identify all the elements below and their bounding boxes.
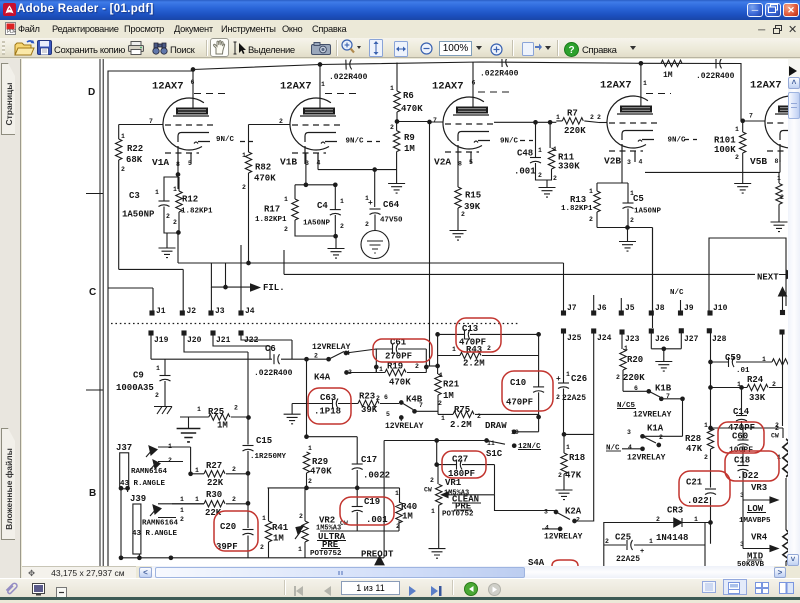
- resistor R40: [396, 488, 402, 531]
- svg-text:470K: 470K: [401, 104, 423, 114]
- label C27: [448, 455, 475, 480]
- wire J6 stub: [593, 295, 595, 311]
- svg-text:1: 1: [121, 133, 125, 140]
- svg-text:470K: 470K: [389, 378, 411, 388]
- svg-text:R30: R30: [206, 490, 222, 500]
- svg-text:C14: C14: [733, 407, 750, 417]
- red oval S4A partial: [552, 560, 578, 566]
- tube V2A 12AX7: [443, 97, 533, 163]
- svg-text:1M: 1M: [404, 144, 415, 154]
- resistor R30: [172, 501, 248, 507]
- resistor R75: [438, 411, 539, 417]
- svg-text:C15: C15: [256, 436, 272, 446]
- node R27 join: [246, 472, 250, 476]
- fit page icon: [369, 39, 383, 62]
- label R11: [553, 146, 580, 182]
- svg-text:N/C: N/C: [670, 289, 684, 297]
- node R17/C4 junction: [334, 234, 338, 238]
- svg-text:22A25: 22A25: [562, 394, 586, 403]
- svg-text:4: 4: [545, 525, 549, 532]
- svg-text:1000A35: 1000A35: [116, 383, 154, 393]
- svg-text:C25: C25: [615, 533, 631, 543]
- svg-text:J19: J19: [154, 336, 169, 345]
- potentiometer VR1: [436, 465, 495, 549]
- svg-text:1.82KP1: 1.82KP1: [561, 205, 593, 213]
- pad J5: [619, 311, 623, 315]
- svg-text:J37: J37: [116, 443, 132, 453]
- svg-text:?: ?: [568, 45, 574, 56]
- node bottom bus 1: [119, 556, 123, 560]
- underline MID: [747, 559, 762, 561]
- svg-text:2: 2: [576, 517, 580, 524]
- node R29 top: [305, 435, 309, 439]
- svg-text:2.2M: 2.2M: [450, 420, 472, 430]
- wire C27 row: [437, 441, 495, 495]
- svg-text:1M: 1M: [443, 391, 454, 401]
- switch K1B: [647, 390, 684, 437]
- pad J26: [649, 329, 653, 333]
- wire bottom bus left: [121, 557, 384, 559]
- inner border with top bus: [108, 71, 193, 566]
- pad J23: [620, 330, 624, 334]
- svg-text:J23: J23: [625, 335, 640, 344]
- label C63: [314, 393, 341, 417]
- capacitor C27 inline: [457, 460, 463, 470]
- svg-text:J20: J20: [187, 336, 202, 345]
- wire V2B cathode down: [621, 162, 623, 181]
- svg-text:.1R250MY: .1R250MY: [250, 453, 287, 461]
- svg-text:C48: C48: [517, 149, 533, 159]
- svg-text:C64: C64: [383, 200, 400, 210]
- print icon: [128, 41, 144, 60]
- resistor R82: [245, 125, 251, 264]
- svg-text:2: 2: [704, 454, 708, 461]
- svg-text:R23: R23: [359, 392, 375, 402]
- label R22: [121, 133, 143, 173]
- svg-text:43 R.ANGLE: 43 R.ANGLE: [132, 530, 178, 538]
- node C10 bottom: [537, 415, 541, 419]
- resistor R23: [351, 400, 399, 406]
- red oval C20: [214, 511, 258, 551]
- svg-text:9N/C: 9N/C: [346, 138, 365, 146]
- wire V2A grid to R7: [494, 121, 556, 123]
- svg-text:1: 1: [195, 496, 199, 503]
- labels J row 1 left: [156, 307, 255, 316]
- svg-text:C6: C6: [265, 344, 276, 354]
- connector J37: [120, 446, 191, 489]
- node FIL junction: [224, 285, 228, 289]
- paperclip: [3, 580, 21, 603]
- label R23: [359, 392, 388, 416]
- ground C3/R12: [159, 233, 176, 258]
- svg-text:2: 2: [772, 381, 776, 388]
- svg-text:22K: 22K: [207, 478, 224, 488]
- label tube V1A: [149, 79, 235, 168]
- red oval C27: [442, 451, 486, 478]
- label VR2: [298, 513, 348, 558]
- capacitor .022R400 (1) inline top bus: [346, 59, 352, 69]
- label C15: [250, 436, 287, 461]
- wire R18 row: [564, 433, 594, 435]
- node R13/C5: [626, 226, 630, 230]
- sidebar: [0, 59, 21, 578]
- svg-text:C59: C59: [725, 353, 741, 363]
- resistor R15: [455, 187, 461, 230]
- svg-text:1MAVBP5: 1MAVBP5: [739, 517, 771, 525]
- label tube V5B: [750, 80, 784, 202]
- svg-text:J24: J24: [597, 334, 612, 343]
- node V2A grid left: [428, 120, 432, 124]
- label R6: [390, 85, 423, 114]
- svg-text:R29: R29: [312, 457, 328, 467]
- svg-text:V2B: V2B: [604, 156, 621, 167]
- pad J1: [150, 311, 154, 315]
- wire C15 column: [247, 359, 249, 558]
- node J26 ground joint: [662, 347, 666, 351]
- pad J2: [180, 311, 184, 315]
- svg-text:1: 1: [242, 152, 246, 159]
- svg-text:R12: R12: [182, 195, 198, 205]
- resistor R43: [460, 352, 481, 358]
- svg-text:R82: R82: [255, 163, 271, 173]
- label VR3: [739, 483, 771, 525]
- fit width icon: [394, 41, 408, 62]
- label C6: [254, 344, 293, 378]
- capacitor .022R400 (3) inline top bus: [716, 58, 722, 68]
- label C3: [122, 189, 170, 220]
- label VR1: [424, 477, 479, 519]
- svg-text:6: 6: [634, 385, 638, 392]
- svg-text:39K: 39K: [464, 202, 481, 212]
- wire J22 ladder: [241, 335, 292, 359]
- svg-text:J7: J7: [567, 304, 577, 313]
- node R6/R9: [395, 120, 399, 124]
- svg-text:4: 4: [628, 444, 632, 451]
- capacitor C64: [370, 209, 381, 231]
- svg-text:8: 8: [458, 161, 462, 168]
- label K4B: [385, 395, 424, 432]
- wire J8 drop from C5: [652, 228, 654, 312]
- svg-text:J1: J1: [156, 307, 166, 316]
- svg-text:C9: C9: [133, 371, 144, 381]
- svg-text:12VRELAY: 12VRELAY: [385, 422, 424, 431]
- svg-text:.01: .01: [736, 367, 750, 375]
- svg-text:47V50: 47V50: [380, 217, 403, 225]
- wire C13 row: [438, 333, 539, 335]
- label C9: [116, 365, 160, 399]
- node C48 top: [534, 121, 538, 125]
- binoculars: [152, 41, 168, 60]
- label R20: [616, 345, 645, 383]
- ground V5B cathode resistor: [771, 222, 788, 232]
- ground R17/C4: [328, 236, 345, 258]
- svg-text:R17: R17: [264, 205, 280, 215]
- svg-text:CW: CW: [771, 433, 779, 440]
- svg-text:DRAW: DRAW: [485, 421, 507, 431]
- svg-text:.022R400: .022R400: [329, 73, 368, 82]
- wire R43 row: [438, 334, 539, 374]
- svg-text:2: 2: [630, 217, 634, 224]
- svg-text:K1B: K1B: [655, 384, 672, 394]
- wire J3 drop: [210, 287, 212, 311]
- window title bar: [0, 0, 800, 20]
- svg-text:C10: C10: [510, 378, 526, 388]
- red oval C60: [718, 422, 764, 453]
- svg-text:R28: R28: [685, 434, 701, 444]
- svg-text:2: 2: [180, 516, 184, 523]
- svg-text:2: 2: [538, 172, 542, 179]
- red oval C18: [725, 451, 779, 481]
- wire V1B plate to bus: [319, 65, 321, 108]
- svg-text:5: 5: [188, 160, 192, 167]
- red oval C21: [679, 471, 730, 506]
- svg-text:3: 3: [305, 160, 309, 167]
- svg-text:12AX7: 12AX7: [432, 81, 464, 93]
- status bar: [0, 578, 800, 597]
- svg-text:1M: 1M: [273, 534, 284, 544]
- pad J6: [592, 311, 596, 315]
- svg-text:J5: J5: [625, 304, 635, 313]
- svg-text:R27: R27: [206, 461, 222, 471]
- svg-text:V5B: V5B: [750, 156, 767, 167]
- svg-text:J28: J28: [712, 335, 727, 344]
- svg-text:22A25: 22A25: [616, 555, 640, 564]
- resistor R24: [747, 384, 768, 390]
- pad J8: [649, 311, 653, 315]
- svg-text:1: 1: [556, 114, 560, 121]
- label R30: [180, 490, 236, 518]
- svg-text:5: 5: [469, 159, 473, 166]
- resistor R21: [435, 374, 441, 414]
- wire J1 drop: [108, 288, 153, 311]
- pad J3: [209, 311, 213, 315]
- svg-text:C21: C21: [686, 478, 703, 488]
- svg-text:R24: R24: [747, 375, 764, 385]
- svg-text:2: 2: [284, 226, 288, 233]
- svg-text:J6: J6: [597, 304, 607, 313]
- label R28: [685, 434, 708, 461]
- svg-text:2: 2: [232, 466, 236, 473]
- node R11 top: [548, 121, 552, 125]
- chassis ground circle C64: [361, 231, 389, 259]
- wire V2A plate to bus: [472, 62, 474, 107]
- capacitor C13 inline: [465, 329, 471, 339]
- zoom out button: [420, 42, 433, 60]
- svg-text:2: 2: [166, 213, 170, 220]
- svg-text:2: 2: [735, 154, 739, 161]
- connector J39: [133, 504, 204, 558]
- node R21 top: [436, 364, 440, 368]
- capacitor C4: [295, 183, 341, 236]
- svg-text:J27: J27: [684, 335, 699, 344]
- svg-text:4: 4: [346, 350, 350, 357]
- ground R101: [734, 184, 751, 194]
- label R29: [308, 445, 332, 485]
- svg-text:1: 1: [308, 445, 312, 452]
- svg-text:1: 1: [321, 81, 325, 88]
- red oval C61: [373, 339, 432, 362]
- label C4: [303, 198, 344, 230]
- svg-text:10: 10: [511, 429, 519, 436]
- wire C25 row: [604, 544, 705, 546]
- capacitor C3: [159, 175, 180, 234]
- wire J9 stub: [680, 300, 682, 311]
- svg-text:1: 1: [298, 546, 302, 553]
- underline N/C5: [617, 408, 636, 410]
- node bottom bus 2: [138, 556, 142, 560]
- box section right: [709, 238, 786, 311]
- resistor R41: [265, 488, 271, 558]
- node C27 left: [435, 463, 439, 467]
- svg-text:FIL.: FIL.: [263, 283, 285, 293]
- svg-text:2: 2: [168, 457, 172, 464]
- svg-text:POT0752: POT0752: [442, 511, 474, 519]
- svg-text:1: 1: [630, 190, 634, 197]
- capacitor C18: [738, 466, 749, 497]
- svg-text:RAMN6164: RAMN6164: [131, 468, 168, 476]
- svg-text:+: +: [640, 548, 644, 556]
- label C17: [361, 455, 390, 481]
- svg-text:J39: J39: [130, 494, 146, 504]
- layout buttons: [702, 581, 716, 593]
- ground R15: [450, 231, 467, 241]
- svg-text:1M: 1M: [663, 71, 673, 80]
- svg-text:43 R.ANGLE: 43 R.ANGLE: [120, 480, 166, 488]
- label C14: [704, 407, 779, 433]
- svg-text:3: 3: [740, 541, 744, 548]
- svg-text:1: 1: [431, 508, 435, 515]
- svg-text:1: 1: [197, 406, 201, 413]
- svg-text:C18: C18: [734, 456, 750, 466]
- arrow NEXT up from J11: [779, 288, 787, 311]
- node C64 top: [373, 168, 377, 172]
- wire J7 drop from bus A: [563, 263, 565, 311]
- tube V1B 12AX7: [290, 98, 380, 164]
- svg-text:2: 2: [232, 496, 236, 503]
- save icon: [37, 40, 52, 60]
- svg-text:47K: 47K: [565, 471, 582, 481]
- svg-text:12AX7: 12AX7: [280, 81, 312, 93]
- resistor R29: [303, 452, 309, 488]
- label R7: [556, 109, 601, 137]
- svg-text:PREOJT: PREOJT: [361, 550, 394, 560]
- capacitor C14: [736, 386, 747, 428]
- svg-text:2: 2: [656, 516, 660, 523]
- wire left box column: [383, 441, 385, 558]
- red oval C63: [308, 388, 351, 424]
- label C48: [514, 147, 542, 179]
- chassis ground C9: [154, 400, 172, 414]
- label C59: [725, 353, 766, 375]
- pad J10: [708, 311, 712, 315]
- svg-text:K2A: K2A: [565, 507, 582, 517]
- svg-text:2: 2: [430, 477, 434, 484]
- svg-text:1: 1: [390, 85, 394, 92]
- pad J22: [239, 331, 243, 335]
- svg-text:470PF: 470PF: [506, 398, 533, 408]
- svg-text:CR3: CR3: [667, 506, 683, 516]
- capacitor .022R400 (2) inline top bus: [502, 57, 508, 67]
- node K4A feed: [305, 357, 309, 361]
- red oval C13: [456, 318, 501, 352]
- switch K4B: [400, 401, 439, 421]
- svg-text:1: 1: [340, 198, 344, 205]
- tube V2B 12AX7: [607, 96, 697, 162]
- svg-text:1: 1: [538, 147, 542, 154]
- node top bus V2B: [639, 62, 643, 66]
- svg-text:J4: J4: [245, 307, 255, 316]
- svg-text:1: 1: [180, 496, 184, 503]
- svg-text:J22: J22: [244, 336, 259, 345]
- svg-text:C63: C63: [320, 393, 336, 403]
- pad J21: [211, 331, 215, 335]
- svg-text:J9: J9: [684, 304, 694, 313]
- wire J28 long column: [710, 333, 712, 544]
- svg-text:POT0752: POT0752: [310, 550, 342, 558]
- underline N/C K1A: [606, 450, 621, 452]
- svg-text:7: 7: [749, 113, 753, 120]
- svg-text:1: 1: [379, 366, 383, 373]
- menu bar: [0, 20, 800, 38]
- label R12: [173, 186, 213, 226]
- svg-text:C: C: [89, 287, 96, 298]
- wire FIL feed: [211, 263, 250, 287]
- zoom box: [439, 41, 472, 56]
- svg-text:2: 2: [605, 538, 609, 545]
- resistor R101: [740, 132, 746, 183]
- svg-text:8: 8: [775, 158, 779, 165]
- svg-text:270PF: 270PF: [385, 352, 412, 362]
- svg-text:V1B: V1B: [280, 157, 297, 168]
- svg-text:S4A: S4A: [528, 558, 545, 566]
- labels J row 2 right: [567, 334, 727, 344]
- svg-text:R41: R41: [272, 523, 289, 533]
- toolbar: [0, 38, 800, 58]
- resistor R9: [375, 122, 400, 184]
- label S1C: [486, 440, 541, 459]
- svg-text:6: 6: [384, 394, 388, 401]
- svg-text:2: 2: [558, 472, 562, 479]
- arrow PREOUT: [375, 556, 384, 565]
- svg-text:100K: 100K: [714, 145, 736, 155]
- wire R25 row: [180, 416, 249, 418]
- label R101: [714, 113, 753, 162]
- svg-text:C13: C13: [462, 324, 478, 334]
- node C61/R19 right: [425, 365, 429, 369]
- wire J20 ladder: [184, 335, 248, 359]
- node top bus V1B: [318, 63, 322, 67]
- svg-text:.022: .022: [687, 496, 709, 506]
- svg-text:.1P18: .1P18: [314, 407, 341, 417]
- svg-text:1: 1: [704, 422, 708, 429]
- hscroll row: [22, 566, 136, 578]
- svg-text:R7: R7: [567, 109, 578, 119]
- svg-text:1: 1: [168, 443, 172, 450]
- red oval C10: [502, 371, 553, 411]
- svg-text:1: 1: [694, 516, 698, 523]
- resistor on V5B cathode: [776, 183, 782, 221]
- arrow FIL: [250, 283, 261, 292]
- svg-text:12VRELAY: 12VRELAY: [312, 343, 351, 352]
- svg-text:7: 7: [666, 393, 670, 400]
- wire V1A plate to bus: [192, 70, 194, 108]
- wire right column pots: [783, 334, 787, 566]
- wire R29 to C17 top: [307, 436, 358, 438]
- svg-text:1M: 1M: [402, 512, 413, 522]
- svg-text:1: 1: [737, 381, 741, 388]
- svg-text:J25: J25: [567, 334, 582, 343]
- svg-text:470K: 470K: [310, 467, 332, 477]
